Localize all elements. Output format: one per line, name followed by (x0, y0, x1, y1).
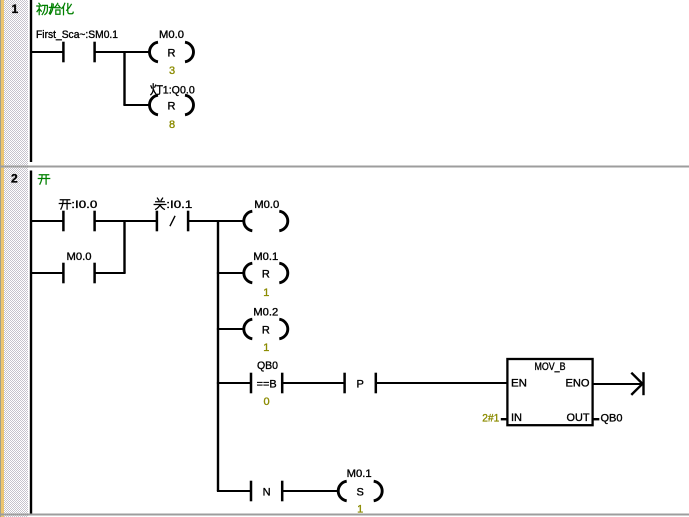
coil M0.0 (R) (150, 42, 194, 62)
svg-text:N: N (263, 487, 271, 499)
svg-text:1: 1 (263, 342, 269, 354)
parallel branch junction (123, 221, 125, 273)
pin OUT (567, 412, 590, 424)
wire branch to coil Q0.0 (123, 104, 150, 106)
value 1 below M0.1 (263, 287, 269, 299)
svg-text::I0.1: :I0.1 (166, 199, 192, 211)
left window edge line (0, 0, 1, 517)
wire branch to coil M0.1 (217, 272, 244, 274)
value 0 below compare (264, 396, 270, 408)
block title MOV_B (535, 361, 566, 373)
wire I0.1 to coil M0.0 (188, 220, 244, 222)
yellow bookmark strip (1, 0, 4, 517)
svg-text:2#1: 2#1 (482, 413, 499, 425)
wire branch to coil M0.2 (217, 328, 244, 330)
svg-text:==B: ==B (257, 379, 277, 391)
wire I0.0 to I0.1 (95, 220, 157, 222)
wire branch to compare contact (217, 382, 251, 384)
pin IN (511, 412, 522, 424)
contact P positive edge (343, 373, 377, 394)
network 1 title 初始化 (37, 3, 73, 14)
svg-text:R: R (262, 325, 270, 337)
svg-text:QB0: QB0 (257, 360, 278, 372)
wire N to coil M0.1 S (282, 490, 338, 492)
network 1 number (12, 2, 19, 16)
contact 开 I0.0 (62, 211, 96, 232)
input value 2#1 (482, 413, 499, 425)
output operand QB0 (601, 413, 623, 425)
coil M0.2 (R) (244, 319, 288, 339)
svg-text:S: S (357, 487, 364, 499)
svg-text:R: R (168, 48, 176, 60)
svg-text:M0.0: M0.0 (254, 199, 279, 211)
svg-text:ENO: ENO (566, 378, 590, 390)
coil 灯1 Q0.0 (R) (150, 95, 194, 115)
pin ENO (566, 378, 590, 390)
label M0.1 S coil (347, 468, 372, 480)
pin EN (511, 378, 527, 390)
wire compare to P contact (282, 382, 345, 384)
svg-text:R: R (262, 269, 270, 281)
svg-text:8: 8 (169, 119, 175, 131)
input tick IN (501, 418, 508, 420)
wire branch corner to N contact (217, 490, 251, 492)
network separator 1-2 (0, 166, 689, 168)
network separator bottom (0, 514, 689, 516)
contact N negative edge (250, 481, 284, 502)
svg-text:M0.0: M0.0 (159, 29, 184, 41)
main branch vertical (217, 221, 219, 491)
svg-text:2: 2 (11, 172, 18, 186)
network 2 title 开 (38, 175, 49, 184)
label 灯1:Q0.0 (151, 84, 195, 97)
node junction net1 (123, 52, 125, 105)
label M0.0 coil net1 (159, 29, 184, 41)
network 2 number (11, 172, 18, 186)
svg-text:M0.1: M0.1 (347, 468, 372, 480)
svg-text:OUT: OUT (567, 412, 590, 424)
wire contact to coil M0.0 (95, 51, 151, 53)
coil M0.0 output (244, 211, 288, 231)
open branch arrow (631, 372, 644, 395)
svg-text::I0.0: :I0.0 (71, 199, 97, 211)
coil M0.1 (S) (338, 481, 382, 501)
value 1 below S coil (357, 504, 363, 516)
label QB0 (257, 360, 278, 372)
svg-text:R: R (168, 101, 176, 113)
label 关:I0.1 (154, 198, 192, 211)
svg-text:EN: EN (511, 378, 527, 390)
wire rail to contact I0.0 (30, 220, 63, 222)
network 2 rail (30, 171, 32, 514)
svg-text:0: 0 (264, 396, 270, 408)
svg-text:IN: IN (511, 412, 522, 424)
label M0.2 (253, 307, 278, 319)
output tick OUT (593, 418, 600, 420)
svg-text:M0.1: M0.1 (253, 251, 278, 263)
svg-text:QB0: QB0 (601, 413, 623, 425)
value 1 below M0.2 (263, 342, 269, 354)
svg-text:1: 1 (12, 2, 19, 16)
coil M0.1 (R) (244, 263, 288, 283)
label M0.0 coil net2 (254, 199, 279, 211)
svg-text:First_Sca~:SM0.1: First_Sca~:SM0.1 (36, 29, 118, 41)
svg-text:M0.0: M0.0 (67, 251, 92, 263)
svg-text:MOV_B: MOV_B (535, 361, 566, 373)
label 开:I0.0 (59, 199, 97, 211)
contact First_Scan SM0.1 (62, 42, 96, 63)
wire P to MOV_B EN (376, 382, 507, 384)
svg-text:M0.2: M0.2 (253, 307, 278, 319)
wire rail to contact M0.0 (30, 272, 63, 274)
svg-text:P: P (357, 379, 364, 391)
wire ENO to arrow (593, 383, 641, 385)
value 8 below coil (169, 119, 175, 131)
svg-text:1: 1 (263, 287, 269, 299)
contact M0.0 (62, 263, 96, 284)
label First_Sca~:SM0.1 (36, 29, 118, 41)
block MOV_B box (507, 359, 592, 425)
compare contact ==B (250, 373, 284, 394)
contact NC 关 I0.1 (156, 211, 190, 232)
svg-text:1:Q0.0: 1:Q0.0 (163, 85, 195, 97)
label M0.0 parallel contact (67, 251, 92, 263)
svg-text:3: 3 (169, 65, 175, 77)
wire M0.0 to junction (95, 272, 126, 274)
network number gutter (dithered) (4, 0, 28, 517)
value 3 below coil (169, 65, 175, 77)
wire rail to contact SM0.1 (30, 51, 63, 53)
label M0.1 (253, 251, 278, 263)
network 1 rail (30, 0, 32, 162)
